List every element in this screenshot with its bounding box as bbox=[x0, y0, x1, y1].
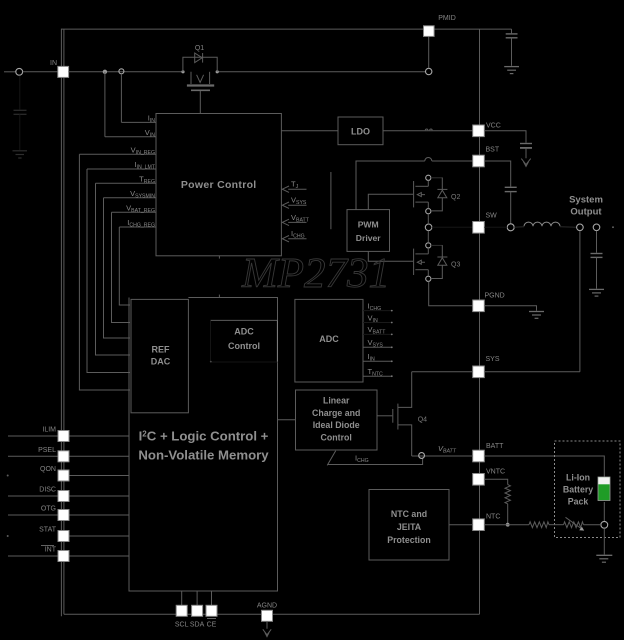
wire: INT pin wires bbox=[8, 555, 129, 557]
label VCC bbox=[486, 123, 501, 130]
node: system output terminal 2 bbox=[593, 224, 600, 231]
label VBATT bbox=[291, 213, 310, 224]
battery pack dashed outline bbox=[555, 441, 621, 538]
node: SW external node circle bbox=[507, 224, 514, 231]
node: PMID internal node circle bbox=[426, 68, 432, 74]
svg-text:DAC: DAC bbox=[151, 357, 171, 367]
node: input terminal circle bbox=[16, 68, 23, 75]
wire: Power Control input IIN_LMT bbox=[87, 169, 156, 373]
wire: SW pin to external node (very dim) bbox=[484, 226, 507, 228]
wire: feedback bus vertical bbox=[330, 172, 332, 229]
pin BATT bbox=[473, 450, 485, 462]
wire: Power Control feedback VBATT with arrow bbox=[282, 219, 306, 225]
svg-text:ADC: ADC bbox=[319, 334, 339, 344]
node: SW internal node circle bbox=[425, 224, 432, 231]
svg-text:NTC and: NTC and bbox=[391, 509, 427, 519]
pin ILIM bbox=[58, 431, 69, 442]
label VSYSMIN bbox=[130, 189, 155, 200]
wire: Power Control input ICHG_REG bbox=[119, 227, 156, 305]
wire: ADC channel VSYS bbox=[363, 346, 393, 348]
protection block: NTC and JEITA Protection bbox=[369, 490, 449, 561]
node: stub right of terminal 2 bbox=[612, 226, 614, 228]
wire: ADC channel VBATT bbox=[363, 334, 393, 336]
label VIN_REG bbox=[131, 146, 155, 157]
pin SCL bbox=[176, 605, 187, 616]
wire: top wire from IN up-left corner to PMID and decoupling cap bbox=[61, 28, 511, 30]
pin BST bbox=[473, 155, 485, 167]
dac block: REF DAC bbox=[131, 299, 188, 412]
svg-text:Non-Volatile Memory: Non-Volatile Memory bbox=[138, 448, 269, 463]
svg-text:REF: REF bbox=[152, 345, 171, 355]
wire: PWM Driver to BST (bootstrap) with hop over switch node bbox=[356, 158, 473, 210]
label NTC bbox=[486, 514, 500, 521]
wire: PWM Driver to Q3 gate bbox=[368, 251, 413, 261]
wire: Q3 source down and right to PGND pin bbox=[429, 281, 473, 305]
ground: system output cap ground bbox=[589, 289, 604, 296]
label Q1 bbox=[195, 45, 204, 52]
svg-text:Protection: Protection bbox=[387, 535, 431, 545]
svg-text:SYS: SYS bbox=[486, 356, 500, 363]
pin DISC bbox=[58, 491, 69, 502]
driver block: PWM Driver bbox=[347, 210, 390, 252]
wire: BATT pin to battery pack bbox=[484, 456, 604, 477]
transistor Q2 (high-side FET with body diode) bbox=[414, 175, 448, 214]
ground: AGND ground arrow bbox=[263, 621, 271, 636]
capacitor: VCC bypass cap bbox=[484, 131, 532, 159]
label ICHG bbox=[291, 229, 305, 240]
wire: PWM Driver to Q2 gate bbox=[368, 194, 413, 209]
pin SDA bbox=[192, 605, 203, 616]
transistor Q3 (low-side FET with body diode) bbox=[414, 243, 448, 282]
label IIN bbox=[368, 352, 376, 363]
label STAT bbox=[39, 527, 57, 534]
wire: Power Control input TREG bbox=[96, 183, 157, 355]
label VIN bbox=[368, 313, 378, 324]
label PSEL bbox=[38, 447, 56, 454]
watermark MP2731 bbox=[241, 251, 390, 297]
label System Output bbox=[569, 195, 603, 218]
svg-text:Q1: Q1 bbox=[195, 45, 204, 52]
svg-text:Driver: Driver bbox=[356, 233, 381, 243]
svg-text:Linear: Linear bbox=[323, 396, 350, 406]
pin OTG bbox=[58, 510, 69, 521]
inductor: output inductor bbox=[524, 222, 560, 226]
wire: PSEL pin wires bbox=[8, 455, 129, 457]
label ICHG_REG bbox=[127, 218, 155, 229]
label QON bbox=[40, 466, 56, 473]
label SYS bbox=[486, 356, 500, 363]
wire: IC left border through IN pin bbox=[63, 29, 65, 614]
wire: battery node to ground bbox=[603, 528, 605, 554]
pin AGND bbox=[262, 610, 273, 621]
ground: PGND ground bbox=[529, 312, 544, 319]
wire: LDO to VCC pin bbox=[383, 130, 473, 132]
resistor: NTC series resistor bbox=[484, 522, 549, 528]
wire: Power Control feedback VSYS with arrow bbox=[282, 202, 306, 208]
svg-text:PMID: PMID bbox=[438, 15, 456, 22]
wire: node to inductor (dim) bbox=[514, 226, 524, 229]
ground: battery ground bbox=[596, 555, 612, 562]
pin PMID bbox=[424, 26, 435, 37]
label Q3 bbox=[451, 262, 460, 269]
wire: IIN sense tap down bbox=[120, 74, 122, 123]
svg-text:ILIM: ILIM bbox=[42, 427, 56, 434]
label INT bbox=[41, 546, 57, 554]
wire: CE pin wire bbox=[211, 591, 213, 605]
label SDA bbox=[190, 622, 205, 629]
control block: ADC Control bbox=[210, 320, 277, 362]
wire: SDA pin wire bbox=[196, 591, 198, 605]
svg-text:BST: BST bbox=[486, 147, 500, 154]
label PMID bbox=[438, 15, 456, 22]
wire: ADC channel VIN bbox=[363, 322, 393, 324]
svg-text:JEITA: JEITA bbox=[397, 522, 422, 532]
logic block: I2C + Logic Control + Non-Volatile Memory bbox=[129, 298, 278, 592]
pin SW bbox=[473, 222, 485, 234]
wire: Q1 to PMID node circle bbox=[217, 71, 425, 73]
wire: ADC channel TNTC bbox=[363, 375, 393, 377]
label IN bbox=[50, 60, 57, 67]
transistor Q1 (input blocking FET with body diode) bbox=[181, 53, 218, 114]
svg-text:Output: Output bbox=[570, 207, 602, 218]
svg-text:IN: IN bbox=[50, 60, 57, 67]
wire: inductor to system output (dim) bbox=[560, 226, 577, 229]
wire: SYS pin external to system output bbox=[484, 371, 580, 373]
svg-text:I2C + Logic Control +: I2C + Logic Control + bbox=[139, 429, 269, 444]
wire: Power Control input VIN_REG bbox=[79, 154, 156, 390]
node: battery negative node circle bbox=[601, 521, 608, 528]
node: system output terminal 1 bbox=[577, 224, 584, 231]
wire: tick stubs between Power Control and logic block bbox=[218, 256, 220, 298]
pin VNTC bbox=[473, 474, 485, 486]
wire: protection block to NTC pin bbox=[449, 524, 473, 526]
svg-text:SDA: SDA bbox=[190, 622, 205, 629]
capacitor: system output cap bbox=[591, 231, 603, 289]
svg-text:AGND: AGND bbox=[257, 603, 277, 610]
wire: ADC channel IIN bbox=[363, 360, 393, 362]
wire: STAT pin wires bbox=[7, 535, 129, 537]
ground: VCC cap ground arrow bbox=[521, 159, 530, 167]
node: tiny double hop bumps on VCC wire bbox=[425, 129, 432, 130]
label VNTC bbox=[486, 469, 505, 476]
svg-text:Power Control: Power Control bbox=[181, 179, 257, 191]
op-amp block: Power Control bbox=[156, 114, 281, 256]
node: NTC junction dot bbox=[506, 523, 510, 527]
label CE bbox=[207, 619, 217, 629]
pin NTC bbox=[473, 519, 485, 531]
wire: SYS pin internal to Q4 drain bbox=[412, 371, 473, 373]
label AGND bbox=[257, 603, 277, 610]
wire: BATT internal wire bbox=[412, 455, 473, 457]
wire: Power Control to LDO bbox=[281, 130, 338, 132]
wire: IC right border bbox=[479, 29, 481, 614]
label ILIM bbox=[42, 427, 56, 434]
svg-text:DISC: DISC bbox=[39, 487, 56, 494]
wire: Power Control input VBAT_REG bbox=[112, 212, 157, 322]
wire: PGND pin to ground bbox=[484, 306, 536, 311]
thermistor: NTC thermistor with arrow bbox=[549, 517, 584, 530]
wire: Q2 source to SW node bbox=[427, 214, 429, 224]
label Li-Ion Battery Pack bbox=[563, 473, 593, 507]
pin VCC bbox=[473, 125, 485, 137]
capacitor: PMID decoupling cap bbox=[506, 29, 518, 66]
label VIN bbox=[145, 128, 155, 139]
svg-text:Charge and: Charge and bbox=[312, 408, 360, 418]
wire: SCL pin wire bbox=[181, 591, 183, 605]
svg-text:VNTC: VNTC bbox=[486, 469, 505, 476]
node: BATT node circle bbox=[419, 453, 425, 459]
wire: ADC channel ICHG bbox=[363, 310, 393, 312]
label BST bbox=[486, 147, 500, 154]
svg-text:SCL: SCL bbox=[175, 622, 189, 629]
svg-text:ADC: ADC bbox=[234, 327, 254, 337]
svg-text:Control: Control bbox=[228, 341, 260, 351]
wire: IN pin to Q1 bbox=[69, 71, 183, 73]
wire: PMID pin stub down to node bbox=[428, 36, 430, 68]
label SCL bbox=[175, 622, 189, 629]
pin SYS bbox=[473, 366, 485, 378]
svg-text:CE: CE bbox=[207, 622, 217, 629]
svg-text:OTG: OTG bbox=[41, 506, 56, 513]
wire: ICHG sense line with bus slash to BATT node bbox=[327, 451, 422, 466]
adc block: ADC bbox=[295, 299, 363, 382]
resistor: VNTC pull-up to NTC node bbox=[484, 479, 510, 524]
svg-text:Q2: Q2 bbox=[451, 194, 460, 201]
label SW bbox=[486, 213, 498, 220]
svg-text:Q4: Q4 bbox=[418, 417, 427, 424]
capacitor: bootstrap cap BST to SW bbox=[484, 161, 516, 224]
wire: Power Control input VIN bbox=[105, 136, 156, 138]
svg-text:NTC: NTC bbox=[486, 514, 500, 521]
capacitor: input cap (faint) bbox=[14, 76, 27, 151]
label TJ bbox=[291, 180, 299, 191]
wire: QON pin wires bbox=[7, 475, 129, 477]
pin IN bbox=[58, 66, 69, 77]
pin PGND bbox=[473, 300, 485, 312]
label VBAT_REG bbox=[126, 203, 155, 214]
svg-text:PSEL: PSEL bbox=[38, 447, 56, 454]
wire: ILIM pin wires bbox=[8, 435, 129, 437]
battery cell icon bbox=[598, 477, 610, 501]
svg-text:BATT: BATT bbox=[486, 443, 504, 450]
wire: Power Control input VSYSMIN bbox=[104, 198, 157, 338]
label ICHG bbox=[368, 301, 382, 312]
svg-text:Li-Ion: Li-Ion bbox=[566, 473, 590, 483]
pin PSEL bbox=[58, 451, 69, 462]
svg-text:System: System bbox=[569, 195, 603, 206]
wire: SW node to Q3 drain bbox=[427, 231, 429, 243]
wire: input terminal to IN pin bbox=[23, 71, 58, 73]
label VSYS bbox=[368, 338, 384, 349]
svg-text:VCC: VCC bbox=[486, 123, 501, 130]
transistor Q4 (BATTFET) bbox=[377, 372, 412, 456]
svg-text:INT: INT bbox=[45, 547, 57, 554]
wire: OTG pin wires bbox=[8, 514, 129, 516]
svg-text:Ideal Diode: Ideal Diode bbox=[313, 420, 360, 430]
svg-text:Battery: Battery bbox=[563, 485, 593, 495]
svg-text:SW: SW bbox=[486, 213, 498, 220]
wire: logic block to Linear Charge block bbox=[278, 419, 296, 421]
label IIN_LMT bbox=[134, 160, 155, 171]
label VSYS bbox=[291, 196, 307, 207]
label VBATT bbox=[368, 325, 387, 336]
pin STAT bbox=[58, 531, 69, 542]
svg-text:QON: QON bbox=[40, 466, 56, 473]
wire: Power Control input IIN bbox=[121, 121, 156, 123]
svg-text:Q3: Q3 bbox=[451, 262, 460, 269]
svg-text:Pack: Pack bbox=[568, 497, 589, 507]
label DISC bbox=[39, 487, 56, 494]
label ICHG bbox=[355, 454, 369, 465]
label IIN bbox=[148, 114, 156, 125]
label TREG bbox=[139, 175, 155, 186]
wire: DISC pin wires bbox=[8, 495, 129, 497]
wire: thermistor to battery node bbox=[584, 524, 601, 526]
svg-text:PGND: PGND bbox=[485, 293, 505, 300]
pin QON bbox=[58, 470, 69, 481]
ground: PMID cap ground bbox=[504, 67, 519, 74]
wire: Power Control feedback ICHG with arrow bbox=[282, 236, 306, 242]
pin INT bbox=[58, 551, 69, 562]
ground: input cap ground (faint) bbox=[13, 151, 28, 158]
label VBATT bbox=[438, 444, 457, 455]
wire: battery negative down bbox=[603, 502, 605, 521]
wire: external vertical line from IN node (outer) bbox=[60, 29, 62, 617]
pin CE bbox=[206, 605, 217, 616]
wire: terminal1 down to SYS wire bbox=[579, 231, 581, 372]
wire: SW node to SW pin (very dim) bbox=[432, 226, 473, 228]
label BATT bbox=[486, 443, 504, 450]
regulator block LDO bbox=[338, 117, 383, 145]
charge block: Linear Charge and Ideal Diode Control bbox=[296, 390, 378, 450]
wire: IC bottom border bbox=[64, 613, 480, 615]
label PGND bbox=[485, 293, 505, 300]
wire: Power Control feedback TJ with arrow bbox=[282, 186, 306, 192]
wire: input lead to IN terminal bbox=[4, 71, 16, 73]
node: IIN sense tap circle bbox=[119, 69, 124, 74]
label Q4 bbox=[418, 417, 427, 424]
svg-text:LDO: LDO bbox=[351, 127, 370, 137]
svg-text:Control: Control bbox=[321, 432, 352, 442]
label TNTC bbox=[368, 367, 384, 378]
wire: VIN sense tap down bbox=[104, 72, 106, 137]
node: VIN sense tap dot bbox=[103, 70, 107, 74]
svg-text:STAT: STAT bbox=[39, 527, 57, 534]
svg-text:MP2731: MP2731 bbox=[241, 251, 390, 297]
label OTG bbox=[41, 506, 56, 513]
svg-text:PWM: PWM bbox=[358, 220, 379, 230]
label Q2 bbox=[451, 194, 460, 201]
